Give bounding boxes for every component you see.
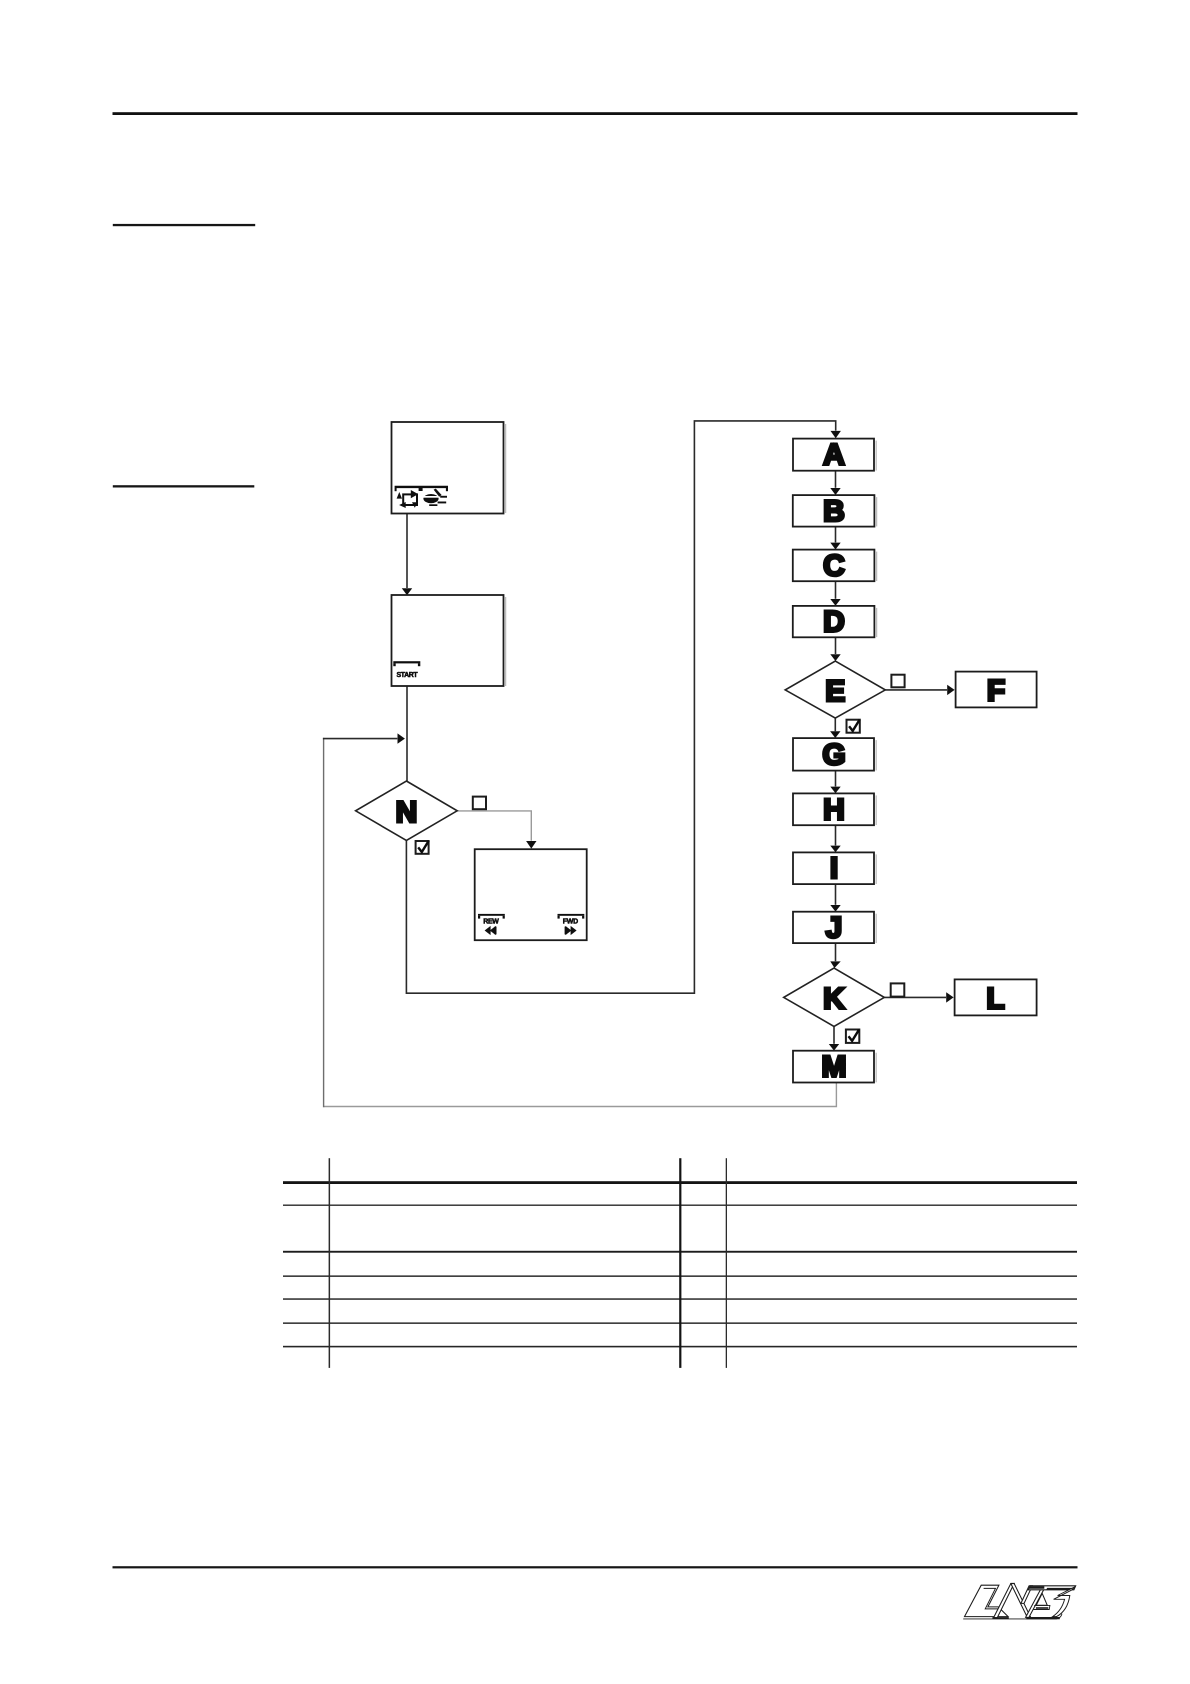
fwd double-right-arrow icon	[565, 926, 577, 935]
svg-text:G: G	[822, 738, 845, 771]
wire J to K	[830, 943, 840, 968]
table row line 7	[283, 1346, 1077, 1348]
LNS logo	[963, 1583, 1075, 1619]
logo bottom black bar under L end	[992, 1617, 1008, 1619]
box F	[956, 672, 1037, 708]
header rule	[113, 112, 1078, 115]
wire loop left vertical	[323, 738, 325, 1107]
box 2 right shadow	[505, 597, 507, 686]
box 1 (screen with icons)	[392, 422, 504, 514]
box J	[793, 911, 876, 944]
svg-text:I: I	[830, 852, 838, 885]
wire B to C	[830, 527, 840, 550]
table row line 3	[283, 1251, 1077, 1253]
box D	[793, 606, 877, 639]
table row line 4	[283, 1275, 1077, 1277]
table row line 6	[283, 1322, 1077, 1324]
svg-text:START: START	[397, 672, 419, 679]
wire C to D	[830, 581, 840, 606]
box H	[793, 793, 876, 826]
checkbox K checked	[846, 1030, 859, 1043]
box 1 right shadow	[505, 424, 507, 513]
wire loop into N line with arrow	[323, 733, 405, 743]
logo S top black dash left	[1029, 1586, 1045, 1589]
wire A to B	[830, 471, 840, 495]
footer rule	[113, 1566, 1078, 1568]
wire K to L	[884, 992, 953, 1002]
logo letter L outline	[965, 1585, 1009, 1616]
logo S mid bar outline	[1034, 1605, 1050, 1609]
wire diamond N no-branch to rew/fwd box	[457, 811, 536, 849]
logo S counter triangle	[1036, 1593, 1047, 1605]
wire I to J	[830, 884, 840, 912]
box A	[793, 439, 876, 472]
box B	[793, 495, 877, 528]
wire box2 to diamond N	[406, 686, 408, 781]
box1 loop icon	[397, 490, 419, 508]
svg-text:K: K	[823, 982, 845, 1015]
wire H to I	[830, 825, 840, 852]
svg-text:E: E	[825, 675, 845, 708]
svg-text:L: L	[986, 982, 1004, 1015]
box 2 (start screen)	[392, 595, 504, 686]
table column line 3	[726, 1158, 727, 1368]
svg-text:B: B	[823, 495, 845, 528]
logo letter N left stroke	[994, 1583, 1015, 1617]
heading underline 1	[113, 224, 255, 226]
table column line 1	[329, 1158, 331, 1368]
box M	[793, 1051, 876, 1084]
box2 start bracket	[393, 661, 420, 666]
svg-text:D: D	[823, 606, 845, 639]
diamond K	[784, 968, 885, 1026]
svg-text:C: C	[823, 549, 845, 582]
box G	[793, 738, 876, 771]
svg-text:A: A	[823, 439, 845, 472]
svg-text:M: M	[822, 1051, 847, 1084]
rew/fwd box	[475, 849, 587, 940]
wire K to M	[829, 1026, 839, 1050]
logo S top band outline	[1028, 1586, 1076, 1590]
logo letter N diagonal	[1011, 1584, 1031, 1618]
checkbox N unchecked	[473, 797, 486, 810]
checkbox E unchecked	[891, 675, 904, 688]
box1 press-key icon	[423, 489, 447, 506]
logo S right shoulder band	[1053, 1587, 1076, 1617]
table row line 2	[283, 1205, 1077, 1206]
checkbox K unchecked	[891, 983, 905, 996]
box I	[793, 852, 876, 885]
wire E to G	[830, 718, 840, 738]
wire D to E	[830, 637, 840, 661]
logo S mid black bar	[1036, 1607, 1048, 1609]
rew double-left-arrow icon	[485, 926, 497, 935]
checkbox N checked	[416, 841, 429, 854]
table row line 5	[283, 1298, 1077, 1300]
logo bottom outline	[963, 1614, 1062, 1619]
diamond N	[356, 781, 458, 841]
box1 menu bar	[395, 486, 448, 492]
svg-text:J: J	[826, 911, 843, 944]
logo letter N right stroke	[1021, 1586, 1032, 1604]
logo S top black dash right	[1046, 1588, 1073, 1590]
wire M loop back down and left	[324, 1083, 837, 1107]
box C	[793, 549, 877, 582]
rew bracket	[478, 914, 505, 919]
wire diamond N yes-branch down, right, up, into A	[406, 421, 841, 993]
wire E to F	[885, 685, 954, 695]
wire box1 to box2	[402, 514, 412, 596]
logo letter S main diagonal	[1026, 1587, 1046, 1617]
diamond E	[785, 661, 885, 718]
svg-text:N: N	[396, 796, 418, 829]
svg-text:H: H	[823, 793, 845, 826]
svg-text:F: F	[987, 675, 1005, 708]
table column line 2 (thick)	[679, 1158, 681, 1368]
svg-text:REW: REW	[483, 919, 499, 926]
svg-text:FWD: FWD	[563, 919, 578, 926]
box L	[955, 979, 1037, 1015]
wire G to H	[830, 771, 840, 794]
logo bottom black bar under S	[1026, 1617, 1060, 1619]
table top rule (thick)	[283, 1181, 1077, 1184]
fwd bracket	[558, 914, 585, 919]
heading underline 2	[113, 485, 255, 487]
checkbox E checked	[847, 719, 860, 732]
